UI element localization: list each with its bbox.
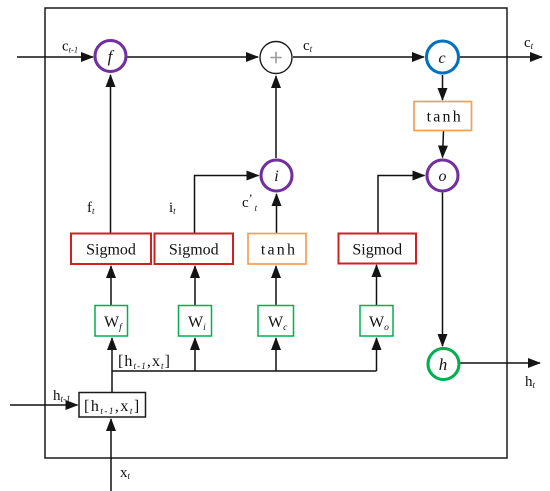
wire h_t output arrow [460, 362, 540, 364]
svg-text:ht-1: ht-1 [53, 388, 71, 404]
wire i up to plus [275, 76, 277, 158]
svg-text:tanh: tanh [261, 242, 297, 259]
wire W_i up to sigmod2 [194, 266, 196, 306]
node c (cell state) [427, 41, 459, 73]
svg-text:Wf: Wf [104, 314, 123, 333]
svg-text:ft: ft [87, 200, 95, 216]
box tanh (mid) [248, 234, 306, 265]
wire tanh up to i [276, 194, 278, 233]
svg-text:Wi: Wi [188, 314, 206, 333]
wire h_{t-1} input arrow [10, 404, 78, 406]
wire concat box up to W_f [111, 338, 113, 393]
wire W_o up to sigmod4 [376, 265, 378, 306]
label plus sign [270, 52, 281, 63]
svg-text:tanh: tanh [427, 109, 463, 126]
box W_c [258, 306, 294, 337]
svg-text:h: h [439, 355, 448, 374]
wire sigmod4 elbow to o [378, 176, 425, 234]
box sigmod1 [71, 234, 151, 265]
node f (forget gate) [95, 41, 126, 72]
wire bus riser to W_i [194, 338, 196, 371]
svg-text:ct-1: ct-1 [62, 39, 78, 55]
node h (hidden state) [428, 349, 459, 380]
box sigmod2 [155, 234, 234, 265]
svg-text:ct: ct [524, 35, 534, 51]
box W_i [179, 306, 212, 337]
svg-text:i: i [274, 168, 278, 185]
box W_f [95, 306, 128, 337]
svg-text:Sigmod: Sigmod [86, 242, 136, 259]
wire sigmod2 elbow to i [195, 176, 259, 234]
box W_o [360, 306, 393, 337]
wire bus riser to W_o [376, 338, 378, 371]
svg-text:Wc: Wc [268, 314, 288, 333]
wire f to plus [127, 56, 258, 58]
svg-text:Wo: Wo [369, 314, 389, 333]
wire W_c up to tanh [275, 266, 277, 306]
wire c_t output arrow [460, 56, 542, 58]
svg-text:c: c [438, 50, 445, 67]
svg-text:o: o [439, 168, 447, 185]
wire tanh2 down to o [443, 131, 444, 158]
wire c down to tanh2 [442, 75, 444, 100]
svg-text:it: it [169, 200, 176, 216]
wire sigmod1 up to f [110, 75, 112, 233]
box tanh (right) [414, 102, 472, 131]
node o (output gate) [427, 160, 458, 191]
svg-text:xt: xt [120, 465, 131, 481]
node plus (add) [260, 42, 292, 74]
svg-text:ct: ct [303, 38, 313, 54]
wire x_t input arrow [110, 419, 112, 491]
svg-text:[ht-1,xt]: [ht-1,xt] [118, 353, 171, 371]
box sigmod4 [339, 234, 417, 264]
svg-text:Sigmod: Sigmod [352, 242, 402, 259]
box concat [h_{t-1},x_t] [79, 393, 146, 418]
svg-text:c’t: c’t [242, 191, 258, 213]
wire c(t-1) input arrow [17, 56, 93, 58]
svg-text:ht: ht [525, 374, 536, 390]
wire W_f up to sigmod1 [110, 266, 112, 306]
wire concat bus horizontal [112, 370, 377, 372]
node i (input gate) [261, 160, 292, 191]
wire plus to c [293, 56, 424, 58]
outer cell border [45, 8, 507, 458]
svg-text:[ht-1,xt]: [ht-1,xt] [84, 398, 141, 416]
svg-text:Sigmod: Sigmod [169, 242, 219, 259]
wire o down to h [442, 193, 444, 347]
wire bus riser to W_c [275, 338, 277, 371]
